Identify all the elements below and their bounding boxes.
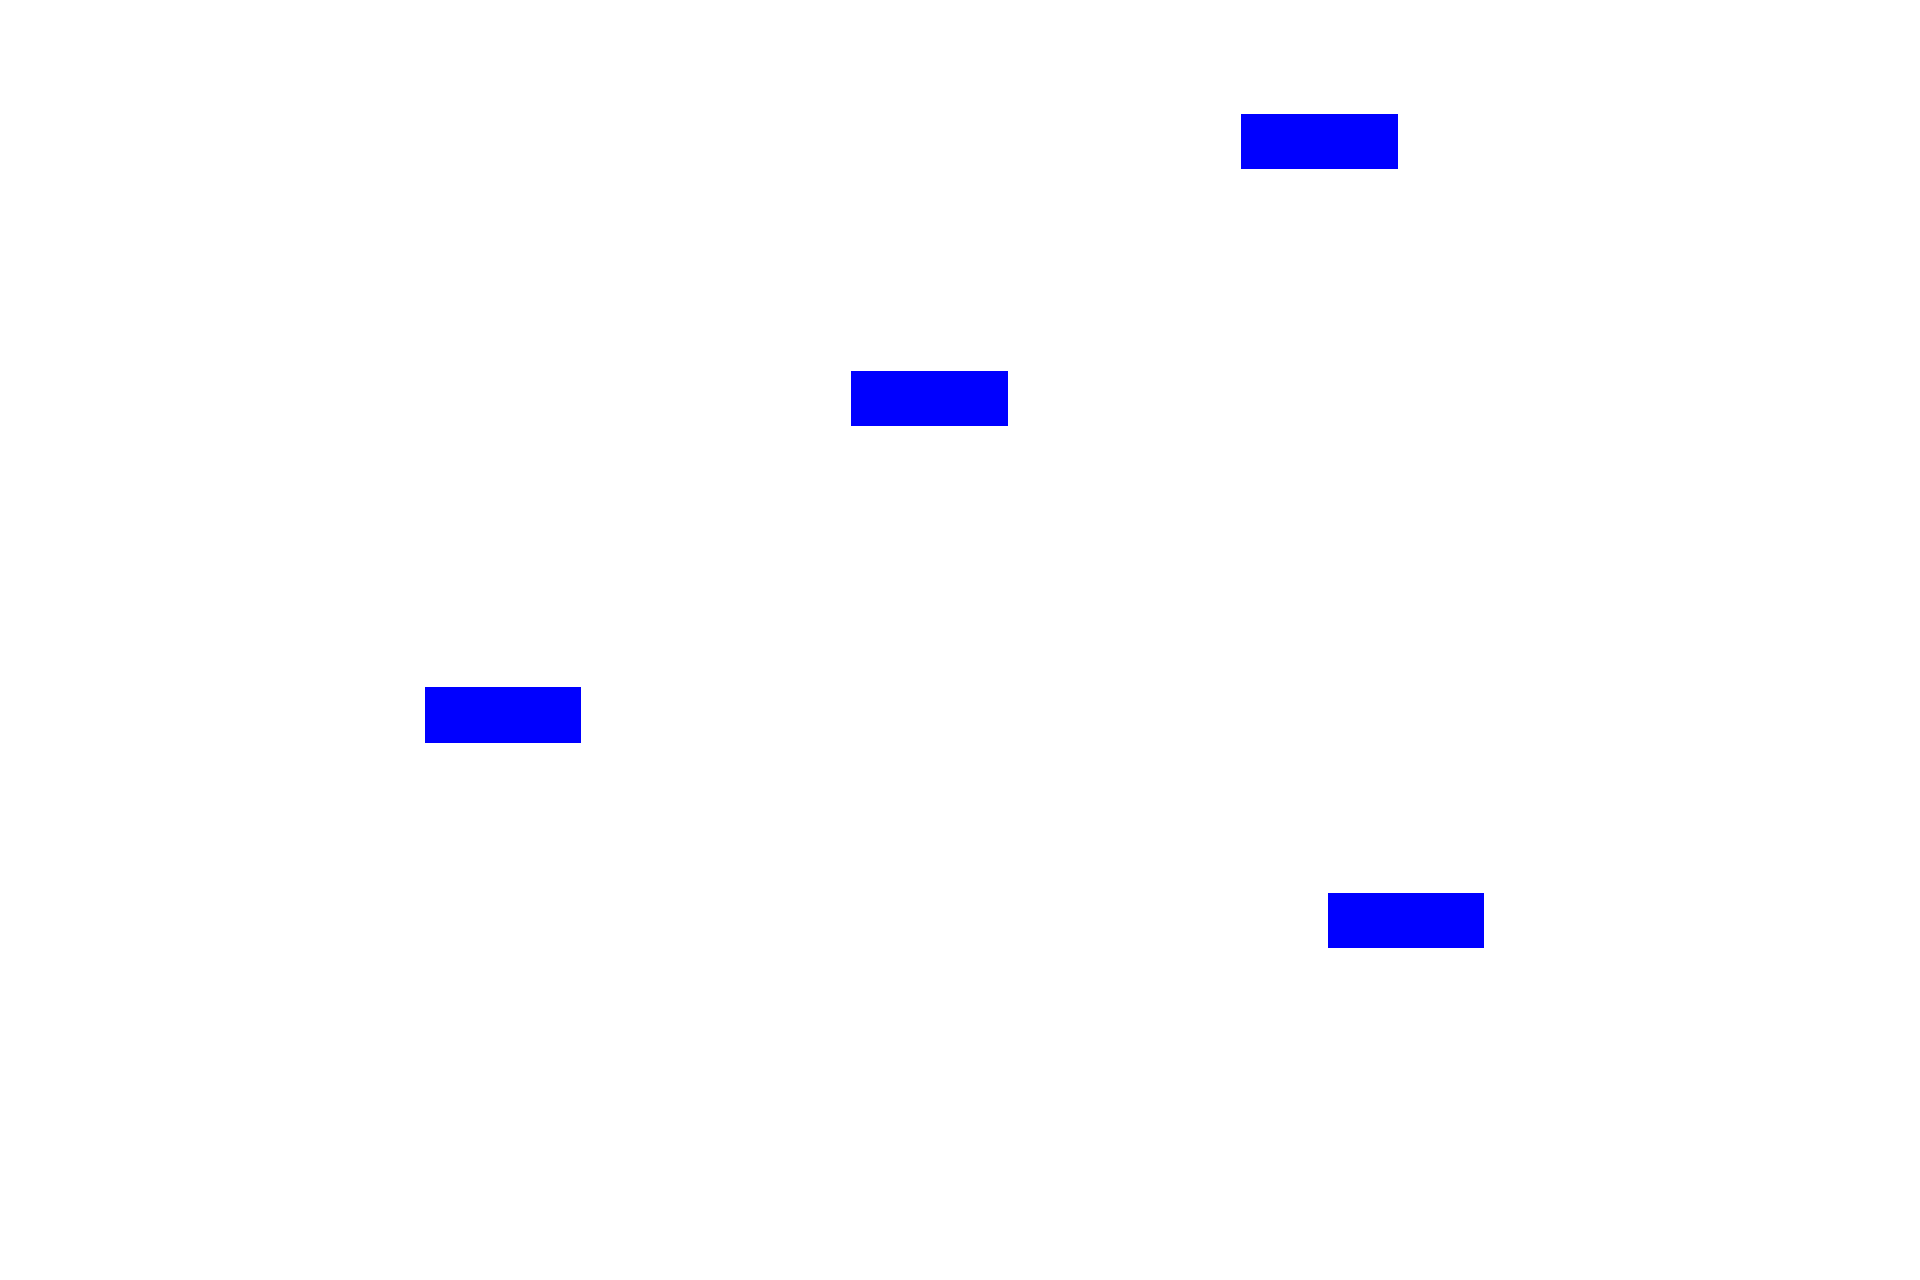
blue rectangle 4 (lower right)	[1328, 893, 1484, 948]
blue rectangle 2 (upper middle)	[851, 371, 1008, 426]
blue rectangle 3 (left)	[425, 687, 581, 743]
blue rectangle 1 (top right)	[1241, 114, 1398, 169]
